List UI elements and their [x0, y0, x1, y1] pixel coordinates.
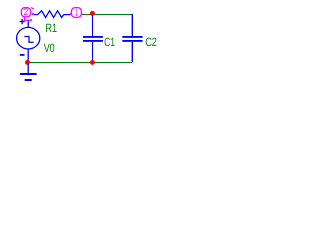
ground lead [28, 64, 29, 73]
resistor R1 left lead [34, 14, 38, 15]
wire bottom ground net [28, 62, 132, 63]
junction dot V0/ground wire [25, 60, 30, 65]
V0 pin cross-bar (magenta) [24, 20, 32, 21]
svg-text:C1: C1 [104, 35, 115, 49]
svg-text:V0: V0 [44, 41, 55, 55]
junction dot bottom (C1/ground wire) [90, 60, 95, 65]
svg-text:C2: C2 [145, 35, 157, 49]
V0 bottom lead [28, 49, 29, 62]
capacitor C2 bottom lead [132, 42, 133, 62]
node 1 bubble left dash [70, 13, 72, 15]
svg-text:R1: R1 [45, 21, 57, 35]
svg-text:2: 2 [24, 7, 29, 18]
node 2 stub to R1 [32, 13, 34, 15]
minus polarity mark [20, 54, 25, 56]
node 1 bubble [71, 8, 81, 19]
capacitor C2 plates [122, 36, 142, 38]
ground bar 1 [20, 73, 37, 75]
capacitor C1 bottom lead [92, 42, 93, 62]
node 2 pointer tick [31, 8, 34, 10]
capacitor C1 top lead [92, 15, 93, 36]
node 1 bubble right dash [81, 13, 82, 15]
voltage source V0 top lead [28, 21, 29, 28]
ground bar 2 [25, 79, 32, 81]
junction dot top (C1/wire) [90, 11, 95, 16]
V0 waveform glyph [24, 37, 33, 43]
node 2 bubble [21, 7, 30, 18]
wire top net (node1 to C2 corner) [82, 14, 132, 15]
capacitor C1 plates [83, 36, 103, 38]
voltage source V0 body [17, 27, 40, 49]
node 2 leader tail [24, 17, 26, 20]
plus polarity mark [20, 19, 25, 24]
capacitor C2 top lead [132, 14, 133, 36]
svg-text:1: 1 [75, 8, 78, 19]
resistor R1 zigzag [38, 11, 64, 18]
resistor R1 right lead [64, 14, 71, 15]
